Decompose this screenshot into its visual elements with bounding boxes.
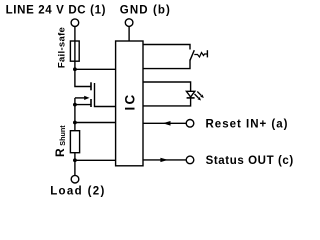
svg-text:IC: IC (123, 93, 138, 111)
wire node A to IC pin left 1 (75, 68, 116, 70)
node A junction LINE/fuse/IC (73, 67, 77, 71)
wire Reset IN+ line (143, 122, 186, 124)
wire Status OUT line (143, 159, 186, 161)
svg-text:Fail-safe: Fail-safe (56, 27, 67, 68)
wire GND terminal to IC top (128, 27, 130, 42)
wire node C to IC pin left 3 (75, 122, 116, 124)
LED D1 emission arrow 1 (197, 92, 201, 96)
thermal switch S1 feed wire from IC (143, 45, 190, 50)
thermal switch S1 blade (190, 50, 194, 60)
wire source node to transistor source bar (75, 104, 91, 106)
thermal switch S1 end bar (206, 50, 208, 57)
svg-text:Shunt: Shunt (58, 125, 67, 146)
svg-text:R: R (53, 148, 67, 157)
transistor Q1 gate line to IC (95, 83, 117, 107)
svg-text:GND (b): GND (b) (120, 4, 171, 16)
node D shunt-bottom junction (73, 158, 77, 162)
LED D1 cathode wire to IC (143, 98, 191, 106)
node C shunt-top junction (73, 121, 77, 125)
transistor Q1 body arrow (75, 97, 85, 99)
IC U1 box (116, 41, 143, 166)
LED D1 cathode bar (187, 97, 195, 99)
node B source junction (73, 103, 77, 107)
LED D1 emission arrow 2 (195, 94, 199, 98)
terminal LINE 24 V DC (1) (71, 19, 79, 27)
svg-text:Status OUT (c): Status OUT (c) (206, 155, 294, 167)
svg-text:Load (2): Load (2) (50, 186, 106, 198)
wire node D to IC pin left 4 (75, 159, 116, 161)
resistor R_Shunt (70, 131, 79, 153)
label R_Shunt (53, 125, 67, 157)
terminal Load (2) (71, 175, 79, 183)
terminal Reset IN+ (a) (186, 120, 194, 128)
terminal GND (b) (125, 19, 133, 27)
fuse fail-safe F1 (70, 41, 79, 61)
arrow Status OUT pointing right (160, 158, 168, 162)
transistor Q1 drain bar (90, 82, 92, 90)
wire LINE terminal down through fuse to node A (74, 27, 76, 70)
wire body/source vertical down to Load terminal (74, 98, 76, 175)
transistor Q1 source bar (90, 99, 92, 107)
LED D1 anode wire from IC (143, 82, 191, 91)
thermal switch S1 return wire to IC (143, 60, 190, 69)
thermal switch S1 actuator squiggle (194, 53, 207, 58)
svg-text:LINE 24 V DC (1): LINE 24 V DC (1) (6, 4, 107, 16)
wire node A to transistor drain (75, 69, 91, 86)
svg-text:Reset IN+ (a): Reset IN+ (a) (206, 118, 289, 130)
arrow Reset IN+ pointing left (163, 121, 171, 126)
LED D1 triangle (186, 91, 194, 97)
terminal Status OUT (c) (186, 156, 194, 164)
